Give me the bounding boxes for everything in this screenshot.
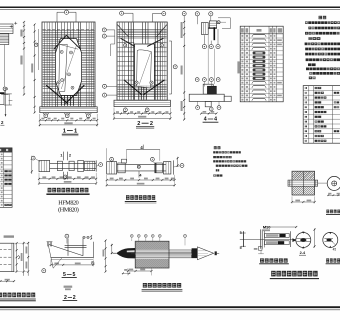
svg-text:5: 5 [73, 272, 76, 278]
plan steel frame right blocks [155, 163, 163, 173]
plan HFM0820 dimension row 2 [38, 173, 97, 185]
rebar schedule table [240, 26, 283, 102]
cable sleeve: sleeve pipe body [135, 250, 191, 253]
cable sleeve: left packing cone (solid bullet) [116, 248, 135, 258]
middle notes heading [214, 146, 217, 149]
cable sleeve: bolt tip [215, 251, 217, 255]
general notes text block [305, 21, 340, 79]
plan steel frame dimension row 1 [106, 178, 176, 182]
svg-text:2-4: 2-4 [300, 251, 306, 255]
wall sleeve: pipe through wall [288, 180, 318, 186]
plan HFM0820 section cut flags (bottom) [63, 172, 65, 180]
plan HFM0820 title (bold, underlined) [48, 188, 52, 193]
embed channel: body with dashed lines [0, 243, 14, 271]
elevation 1-1 pitched lintel braces [54, 35, 67, 49]
channel 5-5: dims [50, 260, 95, 267]
channel 5-5: left anchor hatch [47, 242, 51, 247]
elevation 1-1 rebar mesh: bottom band [43, 92, 95, 104]
elevation 1-1 base plate [40, 107, 97, 113]
jamb plan detail: callout circles [195, 12, 199, 16]
channel 5-5: right small circle [91, 261, 94, 264]
lower-left callouts of elevation 2-2 [103, 84, 107, 88]
elevation 1-1 dimension row 2 (overall) [39, 122, 98, 126]
partial embed-plate detail (cut at left edge) [0, 22, 17, 45]
embed channel: right bracket dim [16, 242, 20, 273]
cable entry: axis line [240, 239, 296, 241]
bottom border rule (thin) [0, 309, 340, 311]
cable entry: small bottom-left fitting marks [258, 247, 262, 251]
elevation 1-1 outer rectangle [42, 22, 95, 107]
embed channel: outer vertical dims [14, 242, 29, 276]
elevation 1-1 bottom V braces [46, 85, 68, 103]
elevation 2-2 rebar mesh top band [118, 29, 167, 38]
elevation 2-2 dimension row 1 [113, 111, 172, 114]
elevation 2-2 side band rungs (right) [154, 43, 166, 85]
jamb plan detail: small callout [217, 21, 220, 24]
elevation 2-2 outer vertical rebars [120, 23, 125, 100]
channel 5-5: web plate double line [65, 244, 87, 246]
embed channel: title (bold, double underline, cut at edge) [0, 293, 2, 298]
elevation 2-2 side band rungs (left) [118, 43, 135, 85]
jamb plan detail: right bracket [218, 17, 230, 19]
material list table [303, 86, 340, 144]
plan HFM0820 right callout [99, 163, 103, 167]
plan steel frame left callout [110, 157, 114, 161]
plan HFM0820 left callout [31, 156, 35, 160]
left vertical dimension chain [20, 21, 25, 96]
cable entry: wall flange plate [259, 229, 261, 248]
jamb plan detail: bottom callout circles [202, 45, 206, 49]
left material list (cut by sheet edge) [0, 148, 12, 208]
plan HFM0820 right blocks [78, 160, 84, 171]
elevation 1-1 jamb vertical rebar pairs [55, 23, 80, 107]
elevation 2-2 base plate [114, 100, 170, 106]
bottom border rule (thick) [0, 306, 340, 308]
plan steel frame middle callout [137, 165, 140, 168]
cable entry: right end plate [290, 231, 292, 247]
plan view HFM0820: left vertical dim [31, 156, 33, 174]
elevation 1-1 dashed top chord [43, 28, 95, 30]
rebar callout circles left of elevation 2-2 [102, 28, 106, 32]
plan steel frame right vertical dim [177, 157, 179, 167]
jamb plan detail: frame profile boxes [201, 23, 208, 35]
elevation 2-2 door opening (inverted U) [134, 44, 154, 86]
plan steel frame left end block [107, 162, 117, 174]
middle notes text [213, 151, 247, 176]
door frame elevation section 1-1 : top callout bracket [57, 11, 76, 13]
elevation 2-2 dimension row 2 [113, 108, 172, 120]
svg-text:4: 4 [214, 117, 217, 123]
cable entry: top dim bracket [265, 226, 296, 228]
elevation 1-1 anchor hooks under base [43, 113, 91, 114]
svg-text:5: 5 [240, 246, 242, 250]
label: right detail (cut at edge, underlined) [326, 258, 329, 262]
elevation 1-1 internal callout circles [60, 50, 63, 53]
elevation 2-2 anchor circles [124, 108, 128, 112]
elevation 2-2 mid vertical bars [143, 23, 148, 44]
elevation 2-2 bottom V braces [124, 80, 142, 95]
cable sleeve: gland nut (dark) [192, 248, 198, 258]
elevation 1-1 rebar mesh: right band [79, 44, 95, 89]
channel 5-5: small top-right marks [83, 236, 85, 238]
cable entry: arrow tip after end plate [292, 238, 296, 242]
svg-text:45: 45 [333, 247, 337, 251]
section 4-4 top callout circles [195, 78, 199, 82]
elevation 1-1 mid vertical bars below sill [61, 95, 73, 105]
secondary leader with callout circle [37, 29, 39, 70]
channel 5-5: base line [51, 257, 94, 259]
cable entry: lower conduit bar [265, 241, 290, 245]
cable entry: end view circle with slot [296, 233, 311, 248]
plan HFM0820 section cut flags 1/2 (top) [63, 152, 65, 161]
svg-text:2: 2 [64, 295, 67, 301]
svg-text:(HM820): (HM820) [58, 207, 79, 214]
elevation 1-1 left vertical dimension [31, 23, 35, 113]
cable sleeve: left vertical dims [103, 240, 113, 273]
elevation 2-2 jamb vertical rebars [129, 23, 134, 100]
cable entry: left anchor flags [242, 231, 244, 247]
top border rule (thin) [0, 8, 340, 10]
svg-text:HFM820: HFM820 [58, 199, 78, 206]
plan steel-door-frame: top section line with flag 4 [127, 148, 160, 150]
svg-text:2: 2 [73, 295, 76, 301]
plan steel frame bar [117, 164, 166, 166]
rebar table side label [237, 61, 239, 73]
elevation 2-2 funnel braces to lintel [121, 38, 135, 46]
wall sleeve: title (cut at right edge) [326, 210, 329, 214]
elevation 2-2 inner callout circles [124, 44, 127, 47]
plan steel frame upper callout [151, 157, 155, 161]
plan steel frame dimension row 2 [106, 175, 176, 187]
title 2-2 underline [136, 126, 154, 128]
section 4-4 tee profile [189, 94, 224, 101]
jamb plan detail: steel angle (heavy) [213, 27, 215, 40]
main title: cable through-wall entry (bold underlined) [271, 271, 275, 277]
elevation 1-1 outer vertical rebars [45, 23, 53, 107]
cable entry: dim between views [314, 228, 316, 247]
svg-text:5: 5 [240, 231, 242, 235]
wall sleeve: hatched wall square [292, 171, 315, 180]
label: cable entry detail (left, underlined) [260, 258, 264, 262]
svg-text:5: 5 [63, 272, 66, 278]
elevation 1-1 anchor circles under base [44, 114, 48, 118]
projection lines down to section 4-4 [207, 34, 209, 84]
elevation 2-2 right vertical dimension chain [181, 12, 187, 121]
elevation 2-2 top callouts [120, 11, 124, 15]
cable sleeve: row of tiny callout circles [130, 235, 161, 246]
channel 5-5: top callout [65, 234, 69, 238]
section 4-4 bottom callout circles [196, 106, 200, 110]
title 1-1 underline [62, 133, 79, 135]
plan HFM0820 left end block [39, 160, 50, 171]
channel 5-5: lower-left callout [42, 269, 46, 273]
wall sleeve: leader to end view [318, 182, 328, 184]
wall sleeve: dims below end view [327, 193, 340, 196]
top border rule (thick) [0, 6, 340, 8]
embed channel: small label above [4, 235, 14, 237]
wall sleeve: end view circle [327, 176, 340, 190]
elevation 1-1 dimension row 1 [39, 114, 98, 126]
cable entry: end view circle 2 (45 deg) [323, 232, 338, 247]
channel 5-5: legs [67, 238, 69, 255]
elevation 2-2 right side bracket with callout [171, 41, 173, 94]
general notes heading [319, 16, 322, 19]
elevation 1-1 door opening octagon (white) [55, 39, 81, 96]
section 4-4 dimensions [200, 111, 217, 115]
small edge anchor detail (left margin) [0, 88, 12, 117]
elevation 2-2 outer rectangle [117, 22, 167, 100]
section 4-4 grout pocket (dark) [207, 86, 216, 94]
plan HFM0820 middle blocks [57, 161, 62, 170]
cable sleeve: outer cone (outline) [197, 247, 213, 260]
embed channel: bottom dim [0, 279, 15, 282]
elevation 1-1 jamb rebar segments over octagon top/bottom [61, 23, 73, 39]
elevation 2-2 door leaf [137, 50, 152, 88]
leader line with circle below partial detail [4, 45, 6, 87]
cable sleeve: bottom dims [122, 268, 153, 275]
cable sleeve waterproof title (bold underlined) [143, 283, 147, 288]
cable entry: upper conduit bar [265, 234, 290, 238]
plan HFM0820 dimension row 1 [38, 176, 97, 180]
svg-text:2: 2 [137, 121, 140, 127]
plan HFM0820 frame bar [50, 163, 97, 165]
elevation 1-1 rebar mesh: top band [43, 31, 95, 41]
elevation 1-1 door leaf (tilted) [59, 44, 67, 92]
elevation 2-2 rebar mesh bottom band [118, 86, 167, 96]
elevation 1-1 rebar mesh: left band [43, 44, 57, 89]
plan steel frame title (bold, underlined) [126, 195, 129, 200]
wall sleeve: dims below square [291, 196, 316, 203]
channel 5-5: sloped gusset lines [48, 244, 83, 256]
small scale note above title 2-2 [64, 286, 73, 288]
wall sleeve: centerline [302, 172, 304, 194]
svg-text:4: 4 [204, 117, 207, 123]
plan steel frame right callout [180, 164, 184, 168]
svg-text:2: 2 [150, 121, 153, 127]
